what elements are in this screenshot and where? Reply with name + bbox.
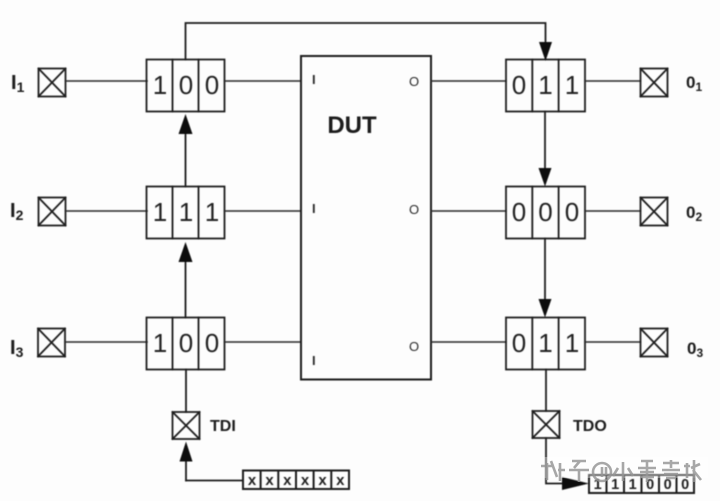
svg-text:0: 0 xyxy=(179,328,193,358)
svg-text:03: 03 xyxy=(687,339,703,360)
wire DUT to register row1 right xyxy=(431,80,506,82)
wire register row1 right to pad O1 xyxy=(585,80,641,82)
svg-text:0: 0 xyxy=(205,328,219,358)
boundary scan register row3 right (cells 0 1 1) xyxy=(506,318,585,370)
wire I2 pad to register xyxy=(66,210,148,212)
scan-out register values xyxy=(594,477,690,493)
wire reg3 right to TDO pad xyxy=(545,370,547,412)
scan-in register values xyxy=(248,472,345,489)
scan-out shift register (1 1 1 0 0 0) xyxy=(589,475,694,493)
register row1 right values xyxy=(512,70,579,100)
wire I3 pad to register xyxy=(65,341,147,343)
svg-text:0: 0 xyxy=(664,477,672,493)
svg-text:1: 1 xyxy=(629,477,637,493)
svg-text:0: 0 xyxy=(512,328,526,358)
wire DUT to register row2 right xyxy=(431,210,506,212)
svg-text:I3: I3 xyxy=(10,337,24,360)
boundary scan register row1 right (cells 0 1 1) xyxy=(506,60,585,112)
watermark text zhihu xyxy=(541,460,701,482)
pad I2 (crossed box) xyxy=(39,198,66,226)
svg-text:1: 1 xyxy=(205,197,219,227)
wire feedback top (reg1 left to reg1 right) xyxy=(186,23,546,60)
svg-text:0: 0 xyxy=(512,70,526,100)
pad I1 (crossed box) xyxy=(39,69,66,97)
arrow into scan-out register xyxy=(562,477,589,490)
svg-text:0: 0 xyxy=(179,70,193,100)
svg-text:x: x xyxy=(318,472,327,489)
svg-text:01: 01 xyxy=(686,73,702,94)
wire register row3 right to pad O3 xyxy=(585,341,641,343)
register row2 right values xyxy=(512,197,579,227)
svg-text:I: I xyxy=(312,353,316,368)
svg-text:DUT: DUT xyxy=(327,112,377,139)
svg-text:O: O xyxy=(409,74,419,89)
wire register row2 left to DUT xyxy=(225,210,302,212)
svg-text:1: 1 xyxy=(153,197,167,227)
boundary scan register row2 right (cells 0 0 0) xyxy=(506,187,585,239)
arrow up into TDI pad xyxy=(180,442,193,462)
arrow into top of register row1 right xyxy=(539,42,552,61)
svg-text:1: 1 xyxy=(611,477,619,493)
pad O2 (crossed box) xyxy=(641,198,668,226)
register row2 left values xyxy=(153,197,219,227)
svg-text:I: I xyxy=(312,72,316,87)
scan wire reg2 left to reg1 left xyxy=(185,130,187,187)
wire I1 pad to register xyxy=(66,80,148,82)
svg-text:0: 0 xyxy=(205,70,219,100)
svg-text:x: x xyxy=(301,472,310,489)
svg-text:1: 1 xyxy=(538,328,552,358)
boundary scan register row3 left (cells 1 0 0) xyxy=(147,318,225,370)
svg-text:x: x xyxy=(265,472,274,489)
svg-text:TDO: TDO xyxy=(573,418,607,435)
pad TDI (crossed box) xyxy=(173,412,200,439)
svg-text:1: 1 xyxy=(179,197,193,227)
svg-text:0: 0 xyxy=(681,477,689,493)
wire DUT to register row3 right xyxy=(431,341,506,343)
wire TDO down and right xyxy=(546,438,562,484)
wire scan-in to TDI with arrow xyxy=(185,460,187,481)
svg-text:I1: I1 xyxy=(11,72,25,95)
svg-text:x: x xyxy=(248,472,257,489)
pad TDO (crossed box) xyxy=(533,411,560,438)
DUT block xyxy=(301,56,431,380)
boundary scan register row1 left (cells 1 0 0) xyxy=(147,60,225,112)
pad I3 (crossed box) xyxy=(38,329,65,357)
svg-text:O: O xyxy=(409,202,419,217)
svg-text:x: x xyxy=(283,472,292,489)
boundary scan register row2 left (cells 1 1 1) xyxy=(147,187,225,239)
svg-text:0: 0 xyxy=(538,197,552,227)
svg-text:0: 0 xyxy=(565,197,579,227)
register row3 left values xyxy=(153,328,219,358)
svg-text:1: 1 xyxy=(565,70,579,100)
scan wire reg3 left to reg2 left xyxy=(185,258,187,318)
svg-text:TDI: TDI xyxy=(210,418,236,435)
pad O1 (crossed box) xyxy=(641,69,668,97)
wire register row2 right to pad O2 xyxy=(585,210,641,212)
scan wire reg1 right to reg2 right xyxy=(544,112,546,173)
wire scan-in horizontal xyxy=(186,480,243,482)
arrow down into register row3 right xyxy=(539,299,552,318)
svg-text:1: 1 xyxy=(565,328,579,358)
arrow down into register row2 right xyxy=(539,168,552,187)
svg-text:O: O xyxy=(409,339,419,354)
svg-text:x: x xyxy=(336,472,345,489)
scan-in shift register (x x x x x x) xyxy=(243,471,349,490)
scan wire reg2 right to reg3 right xyxy=(544,239,546,303)
wire register row3 left to DUT xyxy=(225,341,302,343)
watermark haze xyxy=(540,457,708,478)
svg-text:1: 1 xyxy=(153,328,167,358)
arrow up into register row1 left xyxy=(179,114,193,134)
svg-text:0: 0 xyxy=(512,197,526,227)
svg-text:02: 02 xyxy=(686,203,702,224)
svg-text:I2: I2 xyxy=(10,200,24,223)
wire register row1 left to DUT xyxy=(225,80,302,82)
register row3 right values xyxy=(512,328,579,358)
wire reg3 left to TDI pad xyxy=(185,370,187,413)
svg-text:1: 1 xyxy=(153,70,167,100)
register row1 left values xyxy=(153,70,219,100)
svg-text:I: I xyxy=(312,201,316,216)
pad O3 (crossed box) xyxy=(641,329,668,357)
svg-text:1: 1 xyxy=(538,70,552,100)
arrow up into register row2 left xyxy=(179,242,193,262)
